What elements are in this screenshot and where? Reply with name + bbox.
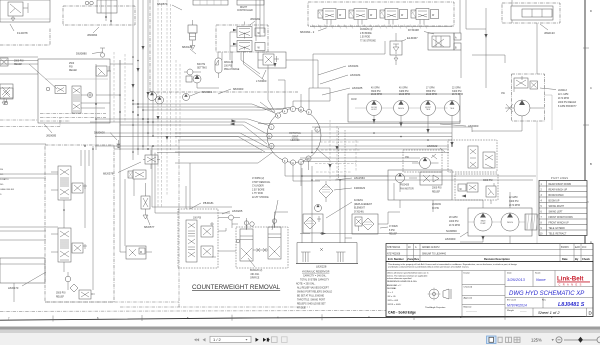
rotary joint port 5 <box>267 133 272 138</box>
label 68J0879 <box>157 2 182 10</box>
toolbar light band <box>0 330 600 334</box>
label J8J0182 <box>250 17 261 25</box>
svg-text:REAR WINCH UP: REAR WINCH UP <box>549 188 568 191</box>
pressure reducing valve left edge <box>0 88 13 105</box>
coupling hatched <box>525 214 538 230</box>
wire stub into box <box>0 264 45 302</box>
cylinder valve D7J0438 <box>428 33 461 50</box>
ctwt cylinder 2 <box>268 219 281 259</box>
svg-text:2000 PSI RELIEF: 2000 PSI RELIEF <box>558 102 577 104</box>
wire feed 8 <box>95 137 265 153</box>
pump text 40 GPM 3600 PSI 2160 RPM <box>371 88 382 96</box>
wire dash-dot cut line vertical <box>178 140 180 307</box>
wire J8J0085 outputs <box>81 95 120 108</box>
wire main vertical bus line 5 <box>152 0 154 136</box>
rotary joint port 1 <box>269 124 274 129</box>
arrowhead feed <box>230 63 277 126</box>
svg-text:Third Angle Projection: Third Angle Projection <box>425 306 446 309</box>
svg-text:.XXXX ± .0005: .XXXX ± .0005 <box>387 304 401 306</box>
svg-text:1 / 2: 1 / 2 <box>213 337 222 342</box>
zone tick right <box>583 124 589 126</box>
svg-text:Date: Date <box>507 272 512 275</box>
svg-text:inches. The tolerances below: inches. The tolerances below are applica… <box>387 274 428 277</box>
svg-text:40 GPM: 40 GPM <box>399 88 408 90</box>
svg-text:68J0003: 68J0003 <box>233 87 244 91</box>
wire cooler to priority valve <box>536 23 538 74</box>
svg-text:L8J0429 (4): L8J0429 (4) <box>360 29 372 31</box>
toolbar nav first-page button <box>194 338 199 341</box>
label J8A0133 <box>540 24 555 35</box>
wire top-left horizontals <box>0 57 133 74</box>
label 68J0128 <box>182 45 196 54</box>
wire upper joint risers <box>260 80 330 116</box>
svg-text:DWG HYD SCHEMATIC XP: DWG HYD SCHEMATIC XP <box>509 291 584 297</box>
arrowhead pilot mesh <box>328 146 338 168</box>
rotary joint port 9 <box>282 158 287 163</box>
svg-text:68J0879: 68J0879 <box>157 2 168 6</box>
rotary joint port 6 <box>275 113 280 118</box>
svg-text:L8A1563: L8A1563 <box>354 176 365 180</box>
svg-text:D: D <box>589 311 592 316</box>
label J7J0356 ctwt cylinder specs <box>252 178 278 230</box>
label F1J2078 <box>10 24 28 35</box>
label 88J0126 orifice <box>248 258 262 280</box>
solenoid valve L8J0429 #3 <box>380 9 408 25</box>
wire ctwt connections <box>186 163 288 251</box>
svg-text:Weight: Weight <box>507 309 514 312</box>
winch valve 2 pilot box <box>72 243 87 253</box>
svg-text:NS: NS <box>0 169 4 171</box>
svg-text:2.50" BORE: 2.50" BORE <box>252 189 265 191</box>
svg-text:C: C <box>590 86 592 90</box>
svg-text:NG: NG <box>0 184 4 186</box>
svg-text:F2R0023: F2R0023 <box>354 186 366 190</box>
tolerance notes cell <box>387 272 429 306</box>
svg-text:and details contained herein i: and details contained herein is prohibit… <box>388 266 470 269</box>
svg-text:F1J2078: F1J2078 <box>17 31 28 35</box>
pump text 17 GPM 3650 PSI 2160 RPM <box>426 88 437 96</box>
reservoir note text block <box>296 271 332 310</box>
svg-text:.X ± .1: .X ± .1 <box>387 292 394 294</box>
label F2J0261 replacement element <box>326 200 373 218</box>
toolbar rotate icon 1 <box>272 337 278 343</box>
rotary joint port 3 <box>269 143 274 148</box>
enclosure top-left dash-dot <box>0 28 50 45</box>
pilot lines row 8 <box>541 222 570 224</box>
svg-text:SWING RIGHT: SWING RIGHT <box>549 206 565 208</box>
ctwt pilot valve upper <box>201 222 214 237</box>
svg-text:L8J0184: L8J0184 <box>350 73 361 77</box>
label N3J0800 <box>446 229 457 233</box>
svg-text:ANGULAR ± 1°: ANGULAR ± 1° <box>387 284 401 287</box>
wire mid bus group B <box>95 146 449 153</box>
svg-text:J8J0085: J8J0085 <box>46 134 57 138</box>
toolbar nav prev button <box>203 338 206 342</box>
svg-text:FRONT WINCH UP: FRONT WINCH UP <box>549 222 570 224</box>
label 68J0578 <box>103 162 141 176</box>
toolbar view icon selected glyph <box>489 337 494 342</box>
svg-text:22 GPM: 22 GPM <box>509 197 518 199</box>
svg-text:1.50 ROD: 1.50 ROD <box>360 37 371 39</box>
toolbar page input box <box>210 336 251 342</box>
wire mid bus group A <box>175 133 452 140</box>
svg-text:L8J0184: L8J0184 <box>348 64 359 68</box>
svg-text:D8J0880: D8J0880 <box>76 52 87 56</box>
svg-text:2160 RPM: 2160 RPM <box>371 94 382 96</box>
svg-text:L8J0413: L8J0413 <box>558 90 568 92</box>
wire suction risers right pair <box>340 176 345 243</box>
zone tick <box>321 314 323 320</box>
valve spool J8J0182 upper <box>230 22 252 38</box>
svg-text:By: By <box>575 257 579 261</box>
pilot lines row 1 <box>541 183 572 186</box>
valve spool J8J0182 lower <box>230 36 252 52</box>
ctwt cylinder 1 <box>240 221 253 261</box>
solenoid valve L8J0429 #4 <box>411 9 439 25</box>
svg-text:PILOT LINES: PILOT LINES <box>551 178 568 180</box>
svg-text:RELIEF: RELIEF <box>69 70 78 72</box>
arrowheads on bus <box>132 46 169 140</box>
label 68J0003 <box>218 87 244 94</box>
toolbar zoom-out icon <box>556 337 562 343</box>
wire feed 4 <box>96 119 269 126</box>
wire return bus 2 <box>312 127 472 132</box>
wire feed 7 <box>95 133 269 148</box>
svg-text:3400 PSI: 3400 PSI <box>509 201 519 203</box>
valve block F1J2078 <box>0 0 50 22</box>
charge pump group <box>184 69 219 88</box>
wire dash-dot boundary mid-left <box>0 118 60 127</box>
svg-text:Link-Belt: Link-Belt <box>557 276 583 283</box>
svg-text:L8J0422: L8J0422 <box>427 144 438 148</box>
svg-text:3500 PSI: 3500 PSI <box>56 293 66 295</box>
pilot lines row 10 <box>540 232 567 235</box>
svg-text:17 GPM: 17 GPM <box>426 88 435 90</box>
orifice check D8J0600 <box>117 140 121 148</box>
toolbar view icon 2 <box>498 337 502 342</box>
svg-text:Revision Description: Revision Description <box>484 257 510 261</box>
svg-text:CAPACITY = 146 GAL.: CAPACITY = 146 GAL. <box>303 275 327 278</box>
toolbar input dropdown caret <box>246 339 248 341</box>
toolbar zoom-in icon cut at edge <box>597 337 600 343</box>
box cut at left edge bottom <box>0 258 45 283</box>
svg-text:RELIEF: RELIEF <box>14 64 23 66</box>
svg-text:2.50 BORE: 2.50 BORE <box>360 33 372 35</box>
svg-text:Sheet 1 of 2: Sheet 1 of 2 <box>538 310 560 315</box>
svg-text:ADDED 22J0472: ADDED 22J0472 <box>422 246 440 249</box>
label L8J0205 <box>222 209 243 214</box>
label 600 PSI SETTING <box>197 64 207 69</box>
enclosure controller dash-dot <box>150 0 298 92</box>
svg-text:L8J0430: L8J0430 <box>291 140 301 142</box>
pilot lines row 7 <box>541 217 574 219</box>
accumulator D8J1130 <box>215 58 222 78</box>
svg-text:COUNTERWEIGHT REMOVAL: COUNTERWEIGHT REMOVAL <box>192 284 281 291</box>
svg-text:88J0126 (2): 88J0126 (2) <box>250 270 262 272</box>
svg-text:L8J0205: L8J0205 <box>232 209 243 213</box>
priority valve block L8J0413 <box>512 74 545 121</box>
svg-text:(REPLACEMENT: (REPLACEMENT <box>354 203 373 206</box>
svg-text:TELE. EXTEND: TELE. EXTEND <box>549 228 566 230</box>
zone tick <box>504 314 506 320</box>
wire upper pump manifold <box>300 41 385 101</box>
svg-text:SWING PORT RELIEFS SHOULD: SWING PORT RELIEFS SHOULD <box>297 292 332 294</box>
svg-text:M787402014: M787402014 <box>507 304 527 308</box>
svg-text:ELEMENT: ELEMENT <box>354 208 365 210</box>
svg-text:L8J0000: L8J0000 <box>468 124 479 128</box>
pump FRONT TELE <box>421 101 436 134</box>
label 68J0577 <box>144 215 155 229</box>
svg-text:D8J0600: D8J0600 <box>94 131 105 135</box>
wire joint to lower bus diagonals <box>175 152 320 181</box>
solenoid valve L8J0429 #1 <box>318 9 346 25</box>
label D8J1130 100 PSI PRE-CHARGE <box>224 62 240 71</box>
title block dividers <box>462 271 593 317</box>
zone tick <box>231 315 233 321</box>
enclosure telescope valve bank dash-dot <box>308 2 454 26</box>
solenoid box W upper <box>255 28 265 36</box>
svg-text:WINCH: WINCH <box>398 108 405 110</box>
label J7J0026 8 PSI RELIEF <box>380 226 398 236</box>
svg-text:CRANES: CRANES <box>559 283 584 287</box>
svg-text:ORIFICE: ORIFICE <box>250 278 260 280</box>
svg-text:2160 RPM: 2160 RPM <box>426 94 437 96</box>
revision header row <box>388 257 590 261</box>
svg-text:125%: 125% <box>531 338 542 343</box>
svg-text:SIMILAR TO L8J0444G: SIMILAR TO L8J0444G <box>422 252 446 255</box>
svg-text:600 PSI: 600 PSI <box>197 64 206 66</box>
svg-text:J7J0356 (2): J7J0356 (2) <box>252 178 264 180</box>
block J8J0182 dash-dot <box>216 25 268 52</box>
svg-text:N3J0800: N3J0800 <box>446 229 457 233</box>
svg-text:CCW: CCW <box>351 99 357 101</box>
wire dashed risers center-left <box>158 0 180 207</box>
relief valve L7J0900 <box>258 52 286 71</box>
label D8J0880 <box>76 52 102 56</box>
ctwt pilot valve lower <box>201 246 216 257</box>
toolbar view icon 4 <box>514 337 520 342</box>
filter vertical 68J0577 <box>141 183 150 219</box>
svg-text:N737402008: N737402008 <box>387 253 401 255</box>
label L8J0185 <box>322 86 363 95</box>
valve block J8J0084 <box>63 0 135 25</box>
label E1J0367 <box>399 36 418 42</box>
solenoid box W lower <box>255 43 265 51</box>
label 68J0001 <box>190 90 213 96</box>
main spool valve J8J0085 <box>72 86 93 113</box>
svg-text:SETTING: SETTING <box>197 67 207 69</box>
svg-text:CONTROLLER: CONTROLLER <box>237 10 253 12</box>
svg-text:40 GPM: 40 GPM <box>371 88 380 90</box>
svg-text:CYLINDER: CYLINDER <box>252 186 264 188</box>
rotary joint port 2 <box>315 127 320 132</box>
svg-text:Scale: Scale <box>535 273 541 275</box>
svg-text:REAR WINCH DOWN: REAR WINCH DOWN <box>549 183 572 186</box>
check valve D8J0880 <box>100 48 105 57</box>
svg-text:Checked: Checked <box>464 287 473 289</box>
svg-text:L8J0185: L8J0185 <box>352 86 363 90</box>
pilot lines row 4 <box>541 200 560 202</box>
svg-text:RELIEF: RELIEF <box>56 296 65 298</box>
svg-text:ROTATING: ROTATING <box>289 132 301 135</box>
label F2R0023 <box>334 186 366 190</box>
pilot lines row 2 <box>541 188 568 191</box>
pump text 22 GPM 3400 PSI 2174 RPM <box>452 88 463 96</box>
label D8J0600 <box>94 131 117 141</box>
label P9J0429 FAN MOTOR <box>400 185 414 191</box>
svg-text:1000 PSI: 1000 PSI <box>449 221 459 223</box>
filter diamond F2R0023 <box>319 181 333 202</box>
label L8J0422 <box>427 144 445 152</box>
svg-text:—————: ————— <box>466 311 478 313</box>
wire feed 6 <box>120 125 267 144</box>
svg-text:68J0578: 68J0578 <box>103 172 114 176</box>
svg-text:N RATIO: N RATIO <box>0 178 9 181</box>
toolbar nav last-page button <box>263 338 270 342</box>
tandem pump box <box>468 208 532 236</box>
svg-text:P9J0429: P9J0429 <box>400 185 410 187</box>
svg-text:68J0128: 68J0128 <box>182 45 193 49</box>
svg-text:CTWT REMOVAL: CTWT REMOVAL <box>252 181 271 184</box>
svg-text:Approval: Approval <box>464 297 473 300</box>
svg-text:3600 PSI: 3600 PSI <box>371 91 381 93</box>
wire mid bus group C <box>300 158 536 180</box>
svg-text:REFERENCE HDWE FN-S-100-: REFERENCE HDWE FN-S-100- <box>387 281 417 283</box>
svg-text:Check: Check <box>582 257 590 261</box>
svg-text:RELIEFS SHOULD BE SET: RELIEFS SHOULD BE SET <box>297 304 326 306</box>
winch motor valve 2 spool <box>51 228 71 262</box>
motor circle small <box>315 205 322 212</box>
svg-text:22 GPM: 22 GPM <box>452 88 461 90</box>
winch motor valve 1 spool <box>51 166 71 200</box>
svg-text:unless otherwise specified.: unless otherwise specified. <box>387 277 412 280</box>
title block fine print <box>388 263 518 269</box>
svg-text:8 PSI: 8 PSI <box>389 230 395 232</box>
wire pump shafts lower <box>468 221 525 223</box>
svg-text:This drawing is the property o: This drawing is the property of Link-Bel… <box>388 263 518 266</box>
svg-text:D8J1130: D8J1130 <box>224 62 234 64</box>
svg-text:L7J0900: L7J0900 <box>256 79 267 83</box>
wire pump shaft line <box>355 107 448 109</box>
svg-text:3650 PSI: 3650 PSI <box>426 91 436 93</box>
svg-text:1.75" ROD: 1.75" ROD <box>252 193 263 195</box>
svg-text:J8J0084: J8J0084 <box>87 33 98 37</box>
wire main vertical bus line 2 <box>137 0 139 155</box>
third angle projection symbol <box>428 288 452 301</box>
svg-text:Drawn: Drawn <box>464 272 471 275</box>
svg-text:3000 PSI: 3000 PSI <box>483 180 493 182</box>
arrow check cooler line <box>484 34 487 38</box>
lower pump L8J0422 box <box>403 150 442 172</box>
orifice 88J0126 symbols <box>253 248 268 252</box>
wire joint bottom drops <box>285 130 330 186</box>
svg-text:F2J0261: F2J0261 <box>354 200 364 202</box>
svg-text:L8J0173: L8J0173 <box>8 286 19 290</box>
label RIGHT CONTROLLER <box>237 0 264 12</box>
svg-text:FAN MOTOR: FAN MOTOR <box>400 187 414 190</box>
check valve E1J0367 <box>390 33 402 65</box>
pilot lines row 5 <box>541 206 565 208</box>
svg-text:RELIEF: RELIEF <box>389 234 398 236</box>
svg-text:DECIMAL: DECIMAL <box>387 287 397 290</box>
svg-text:L8J0000: L8J0000 <box>445 237 456 241</box>
svg-text:PUMP: PUMP <box>480 223 486 225</box>
zone tick <box>141 315 143 321</box>
wire dash-dot bottom left <box>45 302 310 307</box>
motor valve assembly lower center <box>120 246 152 259</box>
svg-text:Zone: Zone <box>407 257 414 261</box>
rotary joint port 13 <box>306 156 311 161</box>
Link-Belt logo red <box>557 276 590 287</box>
wire pump drain grey riser <box>536 121 538 285</box>
winch brake manifold <box>455 174 498 204</box>
pump TELE <box>445 101 460 147</box>
wire pilot mesh dashed right of joint <box>315 120 360 181</box>
toolbar background <box>0 333 600 345</box>
gauge circle ctwt <box>218 215 254 243</box>
rotary joint port 4 <box>282 108 287 113</box>
svg-text:HOIST: HOIST <box>371 109 377 111</box>
zone tick <box>413 314 415 320</box>
svg-text:E1J0367: E1J0367 <box>407 36 418 40</box>
right controller box <box>193 0 228 5</box>
relief valve 2500 PSI <box>96 66 111 76</box>
wire left riser pair <box>96 60 120 150</box>
svg-text:J8A0133: J8A0133 <box>544 31 555 35</box>
svg-text:2000 PSI: 2000 PSI <box>14 61 24 63</box>
wire return to reservoir N3J0800 <box>300 232 460 235</box>
svg-text:L8J0169: L8J0169 <box>432 204 442 206</box>
ctwt valve spool <box>186 220 197 262</box>
svg-text:HYDRAULIC RESERVOIR: HYDRAULIC RESERVOIR <box>302 271 330 274</box>
svg-text:8/18/15: 8/18/15 <box>561 247 569 249</box>
svg-text:Unless otherwise specified dim: Unless otherwise specified dimensions ar… <box>387 272 429 275</box>
junction dots winch <box>63 100 154 211</box>
label 28 GPM 1000 PSI 2174 RPM <box>449 217 460 227</box>
label D7J0438 <box>408 28 434 34</box>
svg-text:FRONT WINCH DOWN: FRONT WINCH DOWN <box>549 217 574 219</box>
pump circle L8J0413 <box>472 93 544 131</box>
label 2000 PSI RELIEF fan <box>432 188 442 194</box>
label L8J0228 <box>316 265 327 269</box>
svg-text:L8J0481 S: L8J0481 S <box>558 302 585 308</box>
svg-text:RIGHT: RIGHT <box>240 7 248 9</box>
text winch note cut at left edge <box>0 169 15 196</box>
svg-text:.091 DIA.: .091 DIA. <box>250 273 260 276</box>
label J8J0085 <box>44 124 57 138</box>
toolbar zoom slider handle <box>578 337 583 343</box>
svg-text:TOTAL SYSTEM CAPACITY: TOTAL SYSTEM CAPACITY <box>300 279 330 282</box>
label 2500 PSI RELIEF <box>69 63 78 72</box>
svg-text:07J0148): 07J0148) <box>354 211 364 213</box>
winch valve 1 pilot box <box>72 183 87 193</box>
wire feed 5 <box>90 122 267 134</box>
svg-text:BE SET AT FULL ENGINE: BE SET AT FULL ENGINE <box>297 295 324 298</box>
svg-text:EAR: EAR <box>575 246 580 249</box>
label 3500 PSI RELIEF <box>56 293 66 299</box>
svg-text:.XX ± .05: .XX ± .05 <box>387 296 396 298</box>
relief valve left edge lower <box>0 58 13 105</box>
svg-text:2174 RPM: 2174 RPM <box>558 98 569 100</box>
wire valve bank drain manifold <box>310 25 452 29</box>
svg-text:SWING LEFT: SWING LEFT <box>549 211 564 213</box>
junction dots mid buses <box>301 132 453 181</box>
svg-text:B: B <box>590 162 592 166</box>
label L8J0184 upper <box>318 64 359 75</box>
pilot lines row 9 <box>541 228 566 230</box>
pump BOOM HOIST <box>367 101 382 124</box>
pump enclosure box <box>348 94 460 122</box>
